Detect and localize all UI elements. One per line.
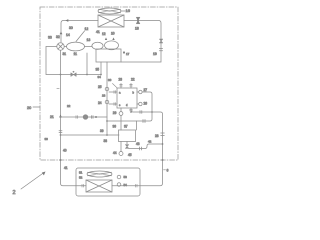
- flow arrow left on top wire: [66, 19, 69, 22]
- svg-text:31: 31: [63, 52, 67, 56]
- svg-text:24: 24: [98, 101, 102, 105]
- junction dot riser x border: [162, 159, 164, 161]
- discharge dot: [123, 51, 125, 53]
- wire HX3 bottom port to lower riser: [131, 108, 163, 186]
- suction riser down from four-way valve: [61, 51, 77, 186]
- indoor port circle I2: [117, 183, 121, 187]
- svg-text:39: 39: [100, 129, 104, 133]
- svg-text:33: 33: [48, 36, 52, 40]
- stub from loop into receiver: [136, 121, 138, 130]
- junction dot riser at border: [60, 159, 62, 161]
- valve SV1 on top-right wire: [136, 17, 140, 24]
- svg-text:36: 36: [113, 125, 117, 129]
- svg-text:b: b: [133, 91, 135, 95]
- svg-text:18: 18: [135, 26, 139, 30]
- svg-text:d: d: [126, 103, 128, 107]
- port circle P1 on pipe: [105, 87, 109, 91]
- svg-text:53: 53: [124, 175, 128, 179]
- svg-text:37: 37: [124, 125, 128, 129]
- svg-text:52: 52: [79, 176, 83, 180]
- accumulator A1 (oval): [67, 42, 85, 51]
- heat exchanger HX2 (indoor, rect with X): [86, 180, 112, 192]
- svg-text:16: 16: [126, 8, 131, 13]
- liquid line to receiver: [61, 134, 120, 136]
- wire HX1 right / discharge riser: [121, 21, 161, 63]
- svg-text:14: 14: [66, 33, 70, 37]
- drain stub below receiver with circle: [120, 142, 122, 152]
- wire through indoor HX: [76, 185, 140, 187]
- svg-text:38: 38: [104, 139, 108, 143]
- strainer on loop bottom: [143, 120, 145, 123]
- indoor port circle I1: [117, 175, 121, 179]
- flow arrow up on left top wire: [60, 32, 63, 35]
- svg-text:23: 23: [119, 78, 123, 82]
- port stubs top of HX3: [121, 84, 131, 89]
- svg-text:29: 29: [113, 111, 117, 115]
- right port circle R1: [137, 90, 142, 93]
- svg-text:34: 34: [98, 75, 102, 79]
- svg-text:13: 13: [87, 38, 91, 42]
- svg-text:30: 30: [108, 78, 112, 82]
- svg-text:41: 41: [64, 166, 68, 170]
- left port stubs of HX3: [109, 92, 117, 104]
- svg-text:44: 44: [113, 151, 117, 155]
- arrows above compressor: [105, 38, 107, 41]
- svg-text:40: 40: [63, 149, 67, 153]
- sensor circle S1: [119, 112, 123, 116]
- svg-text:22: 22: [67, 104, 71, 108]
- svg-text:19: 19: [153, 52, 157, 56]
- svg-text:17: 17: [126, 52, 130, 56]
- flange ticks HX3 bottom stub: [130, 109, 133, 110]
- svg-text:30: 30: [69, 26, 73, 30]
- svg-text:26: 26: [144, 102, 148, 106]
- svg-text:45: 45: [128, 153, 132, 157]
- port circle P2 on pipe: [105, 100, 109, 104]
- outdoor unit dashed enclosure: [40, 7, 178, 160]
- expansion valve EV2 below receiver: [125, 142, 129, 149]
- receiver R (lower rect): [119, 130, 136, 142]
- wire EV2 to lower riser: [129, 144, 163, 149]
- wire HX1 left to four-way valve: [61, 21, 98, 43]
- svg-text:28: 28: [155, 134, 159, 138]
- four-way valve V4: [57, 43, 64, 50]
- svg-text:11: 11: [74, 52, 78, 56]
- svg-text:21: 21: [50, 115, 54, 119]
- fan F2 (indoor): [87, 171, 112, 177]
- svg-text:54: 54: [124, 183, 128, 187]
- electronic expansion valve EVA on mid wire: [61, 116, 108, 118]
- strainer T3 on that wire: [140, 147, 142, 150]
- valve SV2 on riser (discharge): [159, 39, 162, 51]
- svg-text:27: 27: [144, 88, 148, 92]
- right port circle R2: [137, 102, 142, 105]
- junction dots: [60, 74, 153, 136]
- svg-text:2: 2: [13, 190, 16, 196]
- leader line to accumulator: [76, 31, 85, 42]
- junction dot loop crossing: [151, 111, 153, 113]
- tick on suction riser: [57, 87, 59, 89]
- leader line label 30: [113, 84, 118, 88]
- junction dot EV2 wire riser: [162, 143, 164, 145]
- wire connectors valve row: [64, 46, 92, 48]
- svg-text:6: 6: [167, 169, 169, 173]
- stop valve SV3 on lower riser: [161, 133, 165, 136]
- svg-text:39: 39: [45, 137, 49, 141]
- bypass loop from right port to liquid pipe: [107, 92, 152, 121]
- svg-text:43: 43: [136, 142, 140, 146]
- svg-text:32: 32: [56, 35, 60, 39]
- flange ticks HX3 left stubs: [114, 91, 115, 106]
- svg-text:10: 10: [111, 32, 115, 36]
- fan F1 (top, outdoor): [98, 8, 125, 14]
- compressor C1 (body with two domes): [92, 41, 121, 62]
- wire compressor suction leg: [100, 62, 102, 75]
- svg-text:42: 42: [148, 140, 152, 144]
- svg-text:12: 12: [102, 32, 106, 36]
- wire four-way valve left loop down: [46, 47, 101, 75]
- heat exchanger HX1 (outdoor, rect with X): [98, 15, 124, 27]
- expansion valve EV1 on loop: [71, 71, 76, 76]
- strainer on gas line: [140, 111, 142, 114]
- svg-text:51: 51: [79, 171, 83, 175]
- svg-text:35: 35: [96, 68, 100, 72]
- leader arrow bottom-left: [21, 173, 44, 190]
- liquid pipe drop from compressor: [106, 62, 108, 135]
- wire accumulator drop to loop: [86, 53, 88, 75]
- subcooling heat exchanger HX3 (center rect): [117, 88, 137, 108]
- EVA strainer: [92, 116, 94, 119]
- svg-text:25: 25: [98, 85, 102, 89]
- flange ticks EVA wire: [76, 116, 78, 119]
- EVA dot: [95, 116, 97, 118]
- indoor unit box: [76, 168, 140, 196]
- svg-text:12: 12: [85, 27, 89, 31]
- flange ticks HX3 top stubs: [120, 85, 133, 86]
- EVA circle: [83, 115, 88, 120]
- sensor circle S2: [119, 152, 123, 156]
- leader dash label 6: [164, 169, 166, 171]
- svg-text:22: 22: [131, 78, 135, 82]
- svg-text:41: 41: [96, 30, 100, 34]
- svg-text:20: 20: [27, 106, 31, 110]
- wire HX3 bottom left port down: [120, 108, 122, 112]
- svg-text:23: 23: [102, 94, 106, 98]
- flow arrow up on suction riser: [59, 115, 62, 118]
- svg-text:a: a: [119, 92, 121, 95]
- svg-text:c: c: [119, 104, 121, 107]
- flange ticks indoor wires: [82, 184, 137, 187]
